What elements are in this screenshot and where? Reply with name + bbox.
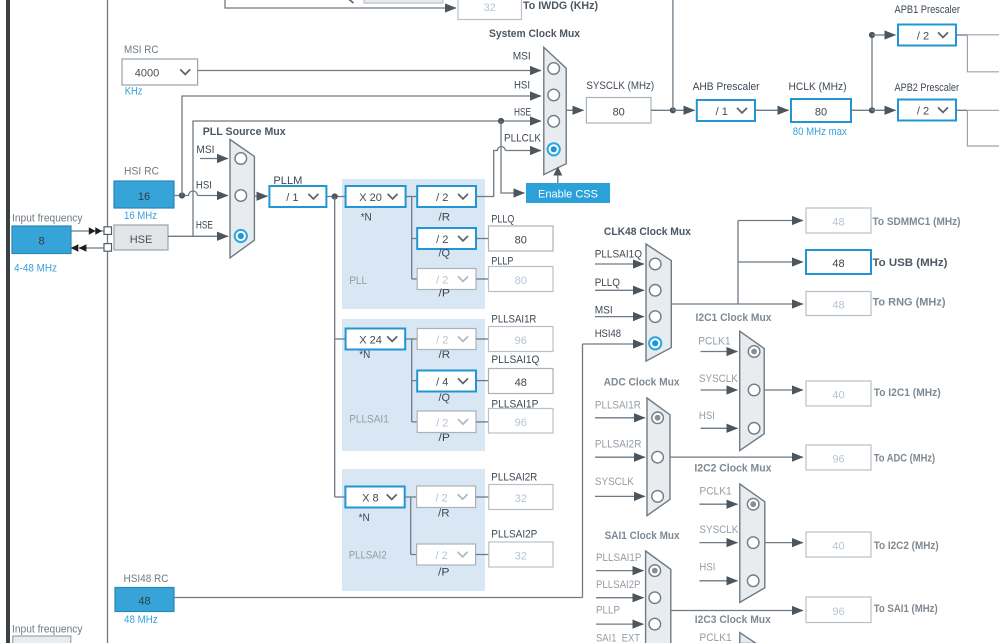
PLL Source Mux input MSI stub — [200, 158, 228, 160]
svg-text:PLLSAI1Q: PLLSAI1Q — [491, 354, 539, 366]
svg-text:PLLP: PLLP — [491, 256, 513, 268]
svg-text:/ 2: / 2 — [436, 192, 448, 204]
svg-text:I2C3 Clock Mux: I2C3 Clock Mux — [695, 614, 772, 626]
SAI1 output box 96 — [806, 597, 871, 623]
svg-text:/ 4: / 4 — [436, 377, 448, 389]
svg-text:PLLSAI1P: PLLSAI1P — [596, 552, 641, 564]
MCU boundary rail — [107, 0, 109, 643]
svg-text:96: 96 — [832, 454, 844, 466]
wire HCLK to APB riser — [851, 109, 872, 111]
CLK48 radio PLLSAI1Q — [649, 258, 661, 270]
wire /P to PLLSAI2P box — [476, 554, 489, 556]
I2C2 output box 40 — [806, 532, 871, 557]
wire PLL Source Mux to PLLM — [254, 195, 267, 197]
svg-text:96: 96 — [515, 417, 527, 429]
PLLSAI2 divider /P disabled — [417, 544, 476, 565]
svg-text:MSI: MSI — [513, 51, 531, 63]
wire HSE return pad — [79, 247, 104, 249]
svg-text:48: 48 — [832, 258, 844, 270]
PLLSAI1 divider /R disabled — [417, 329, 476, 350]
wire PLLM to PLL — [327, 196, 346, 198]
junction HSI — [179, 192, 185, 198]
svg-text:To I2C2 (MHz): To I2C2 (MHz) — [874, 540, 939, 552]
wire ADC output — [670, 456, 803, 458]
wire to SDMMC1 box — [738, 220, 803, 222]
LSE input frequency box partial — [13, 636, 71, 643]
wire APB1 output — [956, 34, 967, 36]
CLK48 mux body — [646, 244, 671, 361]
PLLSAI2 multiplier X 8 — [345, 487, 404, 508]
svg-text:80 MHz max: 80 MHz max — [793, 126, 847, 138]
I2C1 output box 40 — [806, 381, 871, 406]
svg-text:PLLSAI1R: PLLSAI1R — [595, 400, 641, 412]
double arrow right — [89, 227, 102, 235]
SAI1 mux body — [646, 551, 671, 643]
svg-text:PLLSAI2: PLLSAI2 — [349, 549, 387, 561]
junction after PLLM — [332, 193, 338, 199]
svg-text:KHz: KHz — [125, 86, 143, 98]
svg-text:/P: /P — [438, 567, 450, 579]
partial box above top edge — [364, 0, 443, 3]
HCLK box 80 — [791, 99, 851, 122]
svg-text:X 20: X 20 — [359, 192, 382, 204]
RNG output box 48 — [806, 292, 871, 316]
I2C2 mux body — [740, 484, 765, 602]
svg-text:/ 2: / 2 — [435, 550, 447, 562]
svg-text:PLL Source Mux: PLL Source Mux — [203, 126, 287, 138]
svg-text:To I2C1 (MHz): To I2C1 (MHz) — [874, 387, 941, 399]
svg-text:96: 96 — [832, 606, 844, 618]
dark left border bar — [6, 0, 10, 643]
PLLSAI1 block background — [342, 319, 485, 451]
PLL block background — [342, 179, 485, 309]
System Clock Mux radio MSI — [548, 63, 560, 75]
PLL Source Mux radio HSE selected — [235, 230, 247, 242]
ADC radio PLLSAI1R selected — [652, 412, 664, 424]
wire HSI to PLL Source Mux with hop — [174, 191, 198, 195]
svg-text:Enable CSS: Enable CSS — [538, 189, 598, 201]
svg-text:PLLSAI2P: PLLSAI2P — [596, 579, 641, 591]
svg-text:PLLSAI2R: PLLSAI2R — [491, 471, 537, 483]
svg-text:4-48 MHz: 4-48 MHz — [14, 263, 57, 275]
PLLSAI1 internal connector — [405, 339, 417, 422]
APB1 peripheral box — [967, 35, 999, 72]
svg-text:/ 1: / 1 — [716, 106, 728, 118]
svg-text:HSI RC: HSI RC — [124, 166, 159, 178]
wire PLL input riser down to PLLSAI blocks — [334, 197, 336, 498]
I2C2 radio HSI — [747, 575, 759, 587]
PLLSAI2 block background — [342, 469, 485, 591]
svg-text:/P: /P — [439, 432, 451, 444]
svg-text:To RNG (MHz): To RNG (MHz) — [873, 297, 946, 309]
svg-text:HSE: HSE — [196, 219, 213, 231]
wire into AHB prescaler — [673, 109, 695, 111]
wire APB riser — [871, 35, 873, 110]
double arrow left — [71, 244, 87, 252]
CLK48 input PLLSAI1Q stub — [595, 263, 644, 265]
I2C2 radio PCLK1 selected — [747, 498, 759, 510]
wire SYSCLK to AHB — [651, 109, 673, 111]
ADC radio PLLSAI2R — [652, 451, 664, 463]
svg-text:8: 8 — [38, 236, 44, 248]
HSI48 RC box 48 — [115, 588, 174, 612]
wire /P to PLLP box — [476, 278, 489, 280]
SAI1 radio PLLSAI2P — [649, 592, 661, 604]
CLK48 input PLLQ stub — [595, 289, 644, 291]
PLLSAI1 divider /P disabled — [417, 411, 476, 433]
System Clock Mux radio HSI — [548, 89, 560, 101]
ADC input PLLSAI1R stub — [595, 417, 645, 419]
wire into APB1 prescaler — [872, 34, 896, 36]
wire /R to PLLSAI2R box — [476, 496, 489, 498]
svg-text:SAI1 Clock Mux: SAI1 Clock Mux — [605, 530, 681, 542]
wire to RNG box — [738, 303, 803, 305]
svg-text:HSI: HSI — [196, 180, 212, 192]
svg-text:SYSCLK (MHz): SYSCLK (MHz) — [586, 80, 654, 92]
CLK48 input MSI stub — [595, 316, 644, 318]
APB1 Prescaler dropdown /2 — [898, 25, 956, 46]
I2C1 mux body — [740, 331, 765, 450]
svg-text:/Q: /Q — [439, 392, 451, 404]
svg-text:PLLSAI1R: PLLSAI1R — [491, 314, 536, 326]
SAI1 radio PLLSAI1P selected — [649, 565, 661, 577]
wire I2C2 output — [765, 542, 803, 544]
junction SYSCLK riser — [670, 107, 676, 113]
svg-text:PLLQ: PLLQ — [491, 214, 514, 226]
Enable CSS button — [526, 183, 610, 203]
svg-text:/R: /R — [439, 212, 451, 224]
svg-text:AHB Prescaler: AHB Prescaler — [693, 81, 760, 93]
svg-text:I2C2 Clock Mux: I2C2 Clock Mux — [694, 463, 772, 475]
I2C1 input HSI stub — [701, 427, 738, 429]
PLL divider /Q — [417, 228, 476, 249]
I2C1 radio SYSCLK — [748, 384, 760, 396]
svg-text:HCLK (MHz): HCLK (MHz) — [789, 81, 847, 93]
wire CLK48 riser — [737, 221, 739, 305]
svg-text:80: 80 — [515, 235, 527, 247]
wire into APB2 prescaler — [872, 109, 896, 111]
partial chevron above top edge — [349, 0, 354, 3]
I2C1 radio PCLK1 selected — [748, 346, 760, 358]
svg-text:48: 48 — [138, 596, 150, 608]
svg-text:16 MHz: 16 MHz — [124, 210, 157, 222]
svg-text:To SAI1 (MHz): To SAI1 (MHz) — [874, 603, 938, 615]
svg-text:80: 80 — [815, 107, 827, 119]
pad square bottom — [104, 244, 112, 252]
PLLP output box 80 — [489, 267, 554, 292]
wire HSE to Enable CSS — [501, 121, 525, 193]
svg-text:32: 32 — [484, 2, 496, 14]
I2C2 input HSI stub — [699, 580, 737, 582]
CLK48 radio HSI48 selected — [649, 337, 661, 349]
PLLSAI1 divider /Q /4 — [417, 371, 476, 392]
wire Enable CSS to mux — [557, 176, 559, 184]
SAI1 input PLLP stub — [596, 623, 644, 625]
svg-text:*N: *N — [359, 512, 370, 524]
CLK48 radio PLLQ — [649, 285, 661, 297]
wire mux to SYSCLK box — [566, 109, 583, 111]
svg-text:96: 96 — [515, 335, 527, 347]
SAI1 radio PLLP — [649, 618, 661, 630]
svg-text:ADC Clock Mux: ADC Clock Mux — [604, 377, 681, 389]
wire input to HSE pad — [71, 230, 104, 232]
PLL divider /R — [417, 186, 476, 207]
PLL multiplier X 20 — [346, 186, 406, 207]
svg-text:40: 40 — [832, 541, 844, 553]
APB2 Prescaler dropdown /2 — [898, 100, 956, 121]
svg-text:PLLSAI2R: PLLSAI2R — [595, 439, 642, 451]
APB2 peripheral box — [967, 110, 999, 146]
svg-text:CLK48 Clock Mux: CLK48 Clock Mux — [604, 226, 692, 238]
wire to USB box — [738, 261, 803, 263]
wire LSI to IWDG — [225, 0, 456, 8]
wire HSI riser to System Clock Mux — [182, 96, 541, 196]
wire /R to PLLSAI1R box — [476, 338, 489, 340]
SAI1 input PLLSAI2P stub — [596, 597, 644, 599]
svg-text:/Q: /Q — [439, 248, 451, 260]
wire /Q to PLLQ box — [476, 238, 489, 240]
svg-text:PCLK1: PCLK1 — [699, 486, 731, 498]
wire /Q to PLLSAI1Q box — [476, 380, 489, 382]
SYSCLK box 80 — [586, 98, 651, 124]
junction APB riser top — [869, 32, 875, 38]
I2C1 input PCLK1 stub — [701, 351, 738, 353]
svg-text:/ 2: / 2 — [436, 417, 448, 429]
wire CLK48 output — [671, 303, 738, 305]
I2C2 input PCLK1 stub — [699, 503, 737, 505]
ADC mux body — [647, 398, 670, 516]
svg-text:SYSCLK: SYSCLK — [699, 373, 739, 385]
System Clock Mux radio HSE — [548, 116, 560, 128]
wire AHB to HCLK — [755, 109, 789, 111]
svg-text:To USB (MHz): To USB (MHz) — [873, 257, 948, 269]
svg-text:HSI48 RC: HSI48 RC — [124, 573, 169, 585]
svg-text:X 8: X 8 — [362, 493, 379, 505]
wire /P to PLLSAI1P box — [476, 421, 489, 423]
wire HSE riser to System Clock Mux — [193, 121, 541, 236]
svg-text:To SDMMC1 (MHz): To SDMMC1 (MHz) — [873, 216, 961, 228]
svg-text:To ADC (MHz): To ADC (MHz) — [874, 453, 936, 465]
PLLSAI2 divider /R disabled — [417, 486, 476, 508]
svg-text:PCLK1: PCLK1 — [699, 632, 731, 643]
wire SYSCLK riser to top — [672, 0, 674, 110]
wire I2C1 output — [764, 389, 803, 391]
HSI RC box 16 — [114, 181, 174, 208]
svg-text:/ 2: / 2 — [917, 106, 929, 118]
svg-text:40: 40 — [832, 390, 844, 402]
svg-text:PLLQ: PLLQ — [595, 277, 621, 289]
ADC radio SYSCLK — [652, 491, 664, 503]
svg-text:MSI: MSI — [196, 144, 214, 156]
wire HSI48 to CLK48 mux — [174, 344, 583, 598]
PLLSAI2R output box 32 — [489, 485, 553, 510]
svg-text:System Clock Mux: System Clock Mux — [489, 28, 581, 40]
svg-text:80: 80 — [613, 106, 625, 118]
I2C3 mux body partial — [740, 633, 756, 643]
svg-text:4000: 4000 — [135, 68, 159, 80]
svg-text:48 MHz: 48 MHz — [124, 614, 158, 626]
I2C1 radio HSI — [748, 423, 760, 435]
PLLQ output box 80 — [489, 226, 554, 251]
junction APB riser bottom — [869, 107, 875, 113]
svg-text:Input frequency: Input frequency — [12, 624, 83, 636]
svg-text:48: 48 — [832, 300, 844, 312]
svg-text:HSI: HSI — [699, 410, 715, 422]
PLL internal connector — [406, 197, 418, 280]
SDMMC1 output box 48 — [806, 208, 871, 233]
PLL Source Mux body — [230, 140, 254, 258]
junction HSE CSS — [498, 118, 504, 124]
svg-text:Input frequency: Input frequency — [12, 213, 83, 225]
MSI RC dropdown 4000 — [122, 59, 198, 85]
svg-text:/ 2: / 2 — [436, 275, 448, 287]
svg-text:80: 80 — [515, 275, 527, 287]
svg-text:/P: /P — [439, 288, 451, 300]
PLLSAI2P output box 32 — [489, 542, 553, 567]
wire APB2 output — [956, 109, 967, 111]
wire HSE to PLL Source Mux — [168, 235, 228, 237]
svg-text:APB2 Prescaler: APB2 Prescaler — [895, 82, 960, 94]
svg-text:PLL: PLL — [349, 275, 367, 287]
I2C2 radio SYSCLK — [747, 537, 759, 549]
svg-text:/ 2: / 2 — [917, 31, 929, 43]
svg-text:PLLSAI1: PLLSAI1 — [349, 414, 389, 426]
USB output box 48 — [806, 250, 871, 274]
PLLSAI1Q output box 48 — [489, 369, 554, 394]
svg-text:32: 32 — [515, 493, 527, 505]
svg-text:/ 2: / 2 — [435, 492, 447, 504]
PLLSAI1R output box 96 — [489, 327, 554, 352]
svg-text:MSI RC: MSI RC — [124, 44, 159, 56]
System Clock Mux body — [544, 47, 566, 174]
svg-text:*N: *N — [359, 349, 370, 361]
PLLSAI1P output box 96 — [489, 409, 554, 434]
svg-text:MSI: MSI — [595, 305, 613, 317]
svg-text:HSI: HSI — [699, 562, 715, 574]
svg-text:/R: /R — [438, 508, 450, 520]
HSE box — [114, 225, 168, 250]
CLK48 radio MSI — [649, 311, 661, 323]
svg-text:SYSCLK: SYSCLK — [699, 524, 739, 536]
svg-text:To IWDG (KHz): To IWDG (KHz) — [523, 0, 598, 12]
svg-text:HSE: HSE — [130, 234, 153, 246]
svg-text:PCLK1: PCLK1 — [698, 336, 730, 348]
I2C2 input SYSCLK stub — [699, 542, 737, 544]
svg-text:32: 32 — [515, 551, 527, 563]
svg-text:/ 1: / 1 — [286, 192, 298, 204]
svg-text:SAI1_EXT: SAI1_EXT — [596, 633, 640, 643]
svg-text:SYSCLK: SYSCLK — [595, 476, 635, 488]
svg-text:/R: /R — [439, 349, 451, 361]
ADC input SYSCLK stub — [595, 495, 645, 497]
svg-text:/ 2: / 2 — [436, 234, 448, 246]
PLL Source Mux radio HSI — [235, 190, 247, 202]
PLL divider /P disabled — [417, 269, 476, 290]
wire MSI to System Clock Mux — [198, 70, 541, 72]
input frequency box 8 — [12, 226, 71, 254]
svg-text:48: 48 — [515, 377, 527, 389]
svg-text:APB1 Prescaler: APB1 Prescaler — [895, 4, 961, 16]
PLLSAI2 internal connector — [405, 497, 417, 555]
SAI1 input PLLSAI1P stub — [596, 570, 644, 572]
svg-text:PLLSAI2P: PLLSAI2P — [491, 529, 537, 541]
box IWDG output 32 — [458, 0, 522, 20]
ADC output box 96 — [806, 445, 871, 470]
svg-text:16: 16 — [138, 191, 150, 203]
svg-text:HSI: HSI — [514, 80, 530, 92]
svg-text:/ 2: / 2 — [436, 335, 448, 347]
pad square top — [104, 227, 112, 235]
svg-text:48: 48 — [832, 217, 844, 229]
System Clock Mux radio PLLCLK selected — [548, 143, 560, 155]
svg-text:X 24: X 24 — [359, 335, 382, 347]
svg-text:*N: *N — [361, 212, 372, 224]
PLLM dropdown /1 — [269, 186, 326, 207]
PLL Source Mux radio MSI — [235, 153, 247, 165]
ADC input PLLSAI2R stub — [595, 456, 645, 458]
I2C1 input SYSCLK stub — [701, 389, 738, 391]
svg-text:HSI48: HSI48 — [595, 328, 621, 340]
PLLSAI1 multiplier X 24 — [346, 329, 406, 350]
svg-text:I2C1 Clock Mux: I2C1 Clock Mux — [696, 312, 773, 324]
svg-text:PLLSAI1Q: PLLSAI1Q — [595, 249, 643, 261]
svg-text:PLLP: PLLP — [596, 605, 620, 617]
svg-text:HSE: HSE — [514, 107, 531, 119]
wire SAI1 output — [671, 610, 803, 612]
svg-text:PLLCLK: PLLCLK — [504, 132, 542, 144]
AHB Prescaler dropdown /1 — [697, 100, 755, 121]
wire PLLR to PLLCLK with hop — [476, 147, 505, 197]
